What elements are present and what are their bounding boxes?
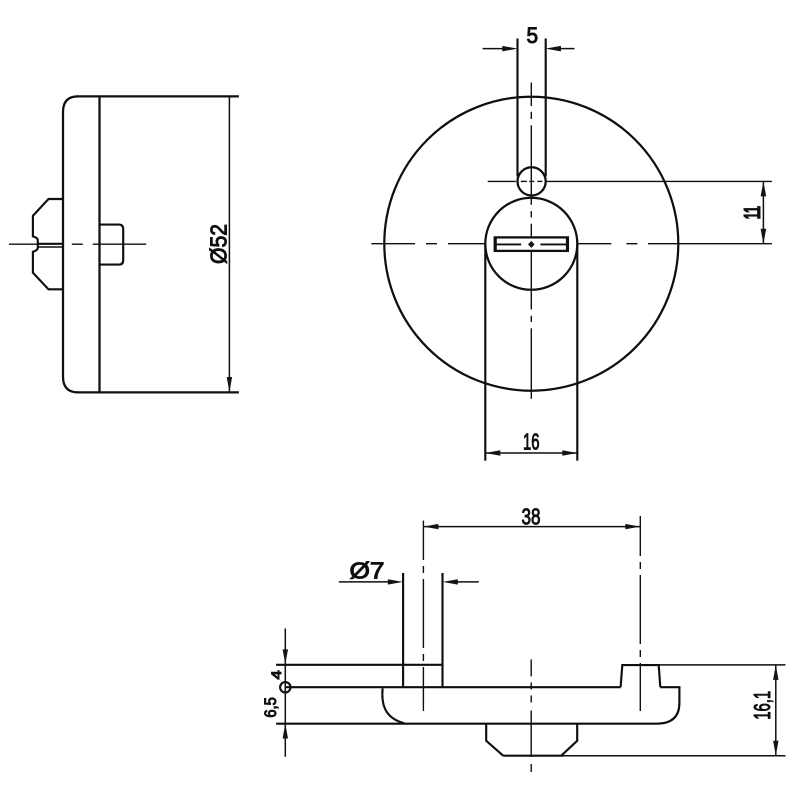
svg-text:6,5: 6,5 <box>262 697 280 718</box>
svg-text:11: 11 <box>739 206 765 219</box>
svg-text:16: 16 <box>523 429 540 455</box>
svg-text:38: 38 <box>522 503 541 529</box>
svg-text:Ø52: Ø52 <box>206 224 232 264</box>
svg-text:5: 5 <box>527 23 539 48</box>
svg-text:Ø7: Ø7 <box>350 557 385 583</box>
svg-text:4: 4 <box>269 670 284 680</box>
svg-text:16,1: 16,1 <box>749 691 775 720</box>
